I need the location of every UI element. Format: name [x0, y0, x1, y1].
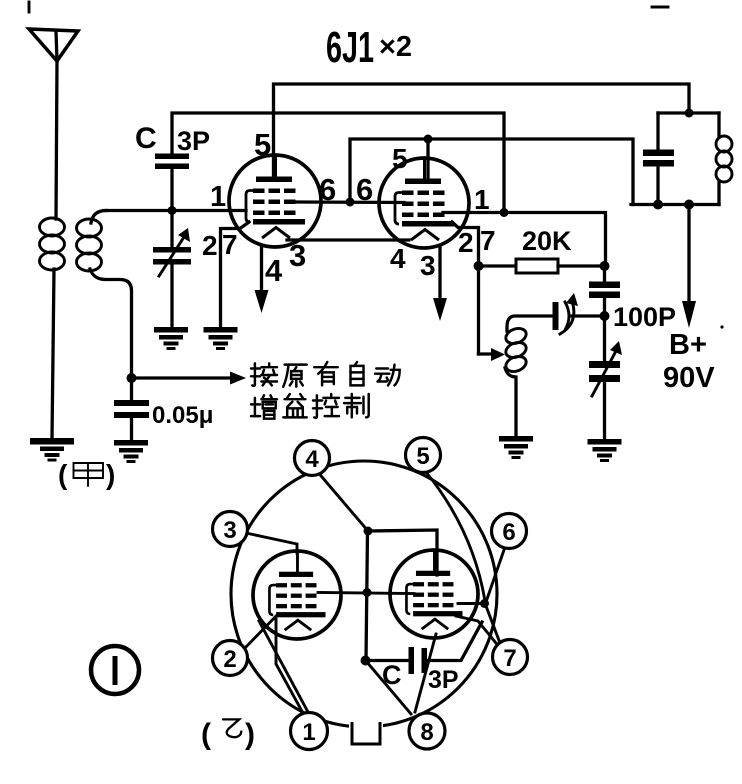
svg-text:2: 2	[202, 230, 218, 261]
svg-text:B+: B+	[669, 329, 707, 361]
svg-text:3: 3	[223, 517, 236, 544]
svg-text:1: 1	[302, 719, 315, 746]
svg-text:C: C	[382, 660, 402, 690]
svg-text:(: (	[58, 459, 68, 490]
svg-text:7: 7	[503, 645, 516, 672]
svg-text:×2: ×2	[379, 31, 412, 63]
svg-text:20K: 20K	[522, 226, 572, 256]
svg-text:0.05μ: 0.05μ	[152, 402, 213, 429]
svg-text:6J1: 6J1	[326, 23, 374, 72]
svg-text:7: 7	[222, 229, 238, 260]
svg-text:2: 2	[223, 646, 236, 673]
svg-text:3: 3	[289, 238, 306, 273]
svg-text:3: 3	[420, 250, 436, 281]
svg-text:C: C	[135, 122, 157, 155]
svg-text:1: 1	[210, 181, 226, 213]
svg-text:5: 5	[254, 127, 271, 162]
svg-text:5: 5	[416, 443, 429, 470]
svg-text:6: 6	[502, 519, 515, 546]
svg-text:): )	[106, 459, 115, 490]
svg-text:7: 7	[480, 225, 496, 256]
svg-text:100P: 100P	[613, 302, 676, 332]
svg-text:3P: 3P	[177, 126, 210, 156]
svg-text:): )	[245, 718, 255, 751]
svg-text:4: 4	[390, 243, 406, 274]
svg-text:4: 4	[305, 446, 319, 473]
svg-text:1: 1	[474, 184, 490, 215]
svg-text:6: 6	[319, 172, 336, 207]
svg-text:8: 8	[420, 719, 433, 746]
svg-text:2: 2	[458, 227, 474, 258]
svg-text:90V: 90V	[663, 362, 715, 394]
svg-text:(: (	[201, 718, 211, 751]
svg-text:4: 4	[265, 253, 283, 288]
svg-text:6: 6	[356, 172, 373, 207]
svg-text:3P: 3P	[428, 666, 459, 694]
